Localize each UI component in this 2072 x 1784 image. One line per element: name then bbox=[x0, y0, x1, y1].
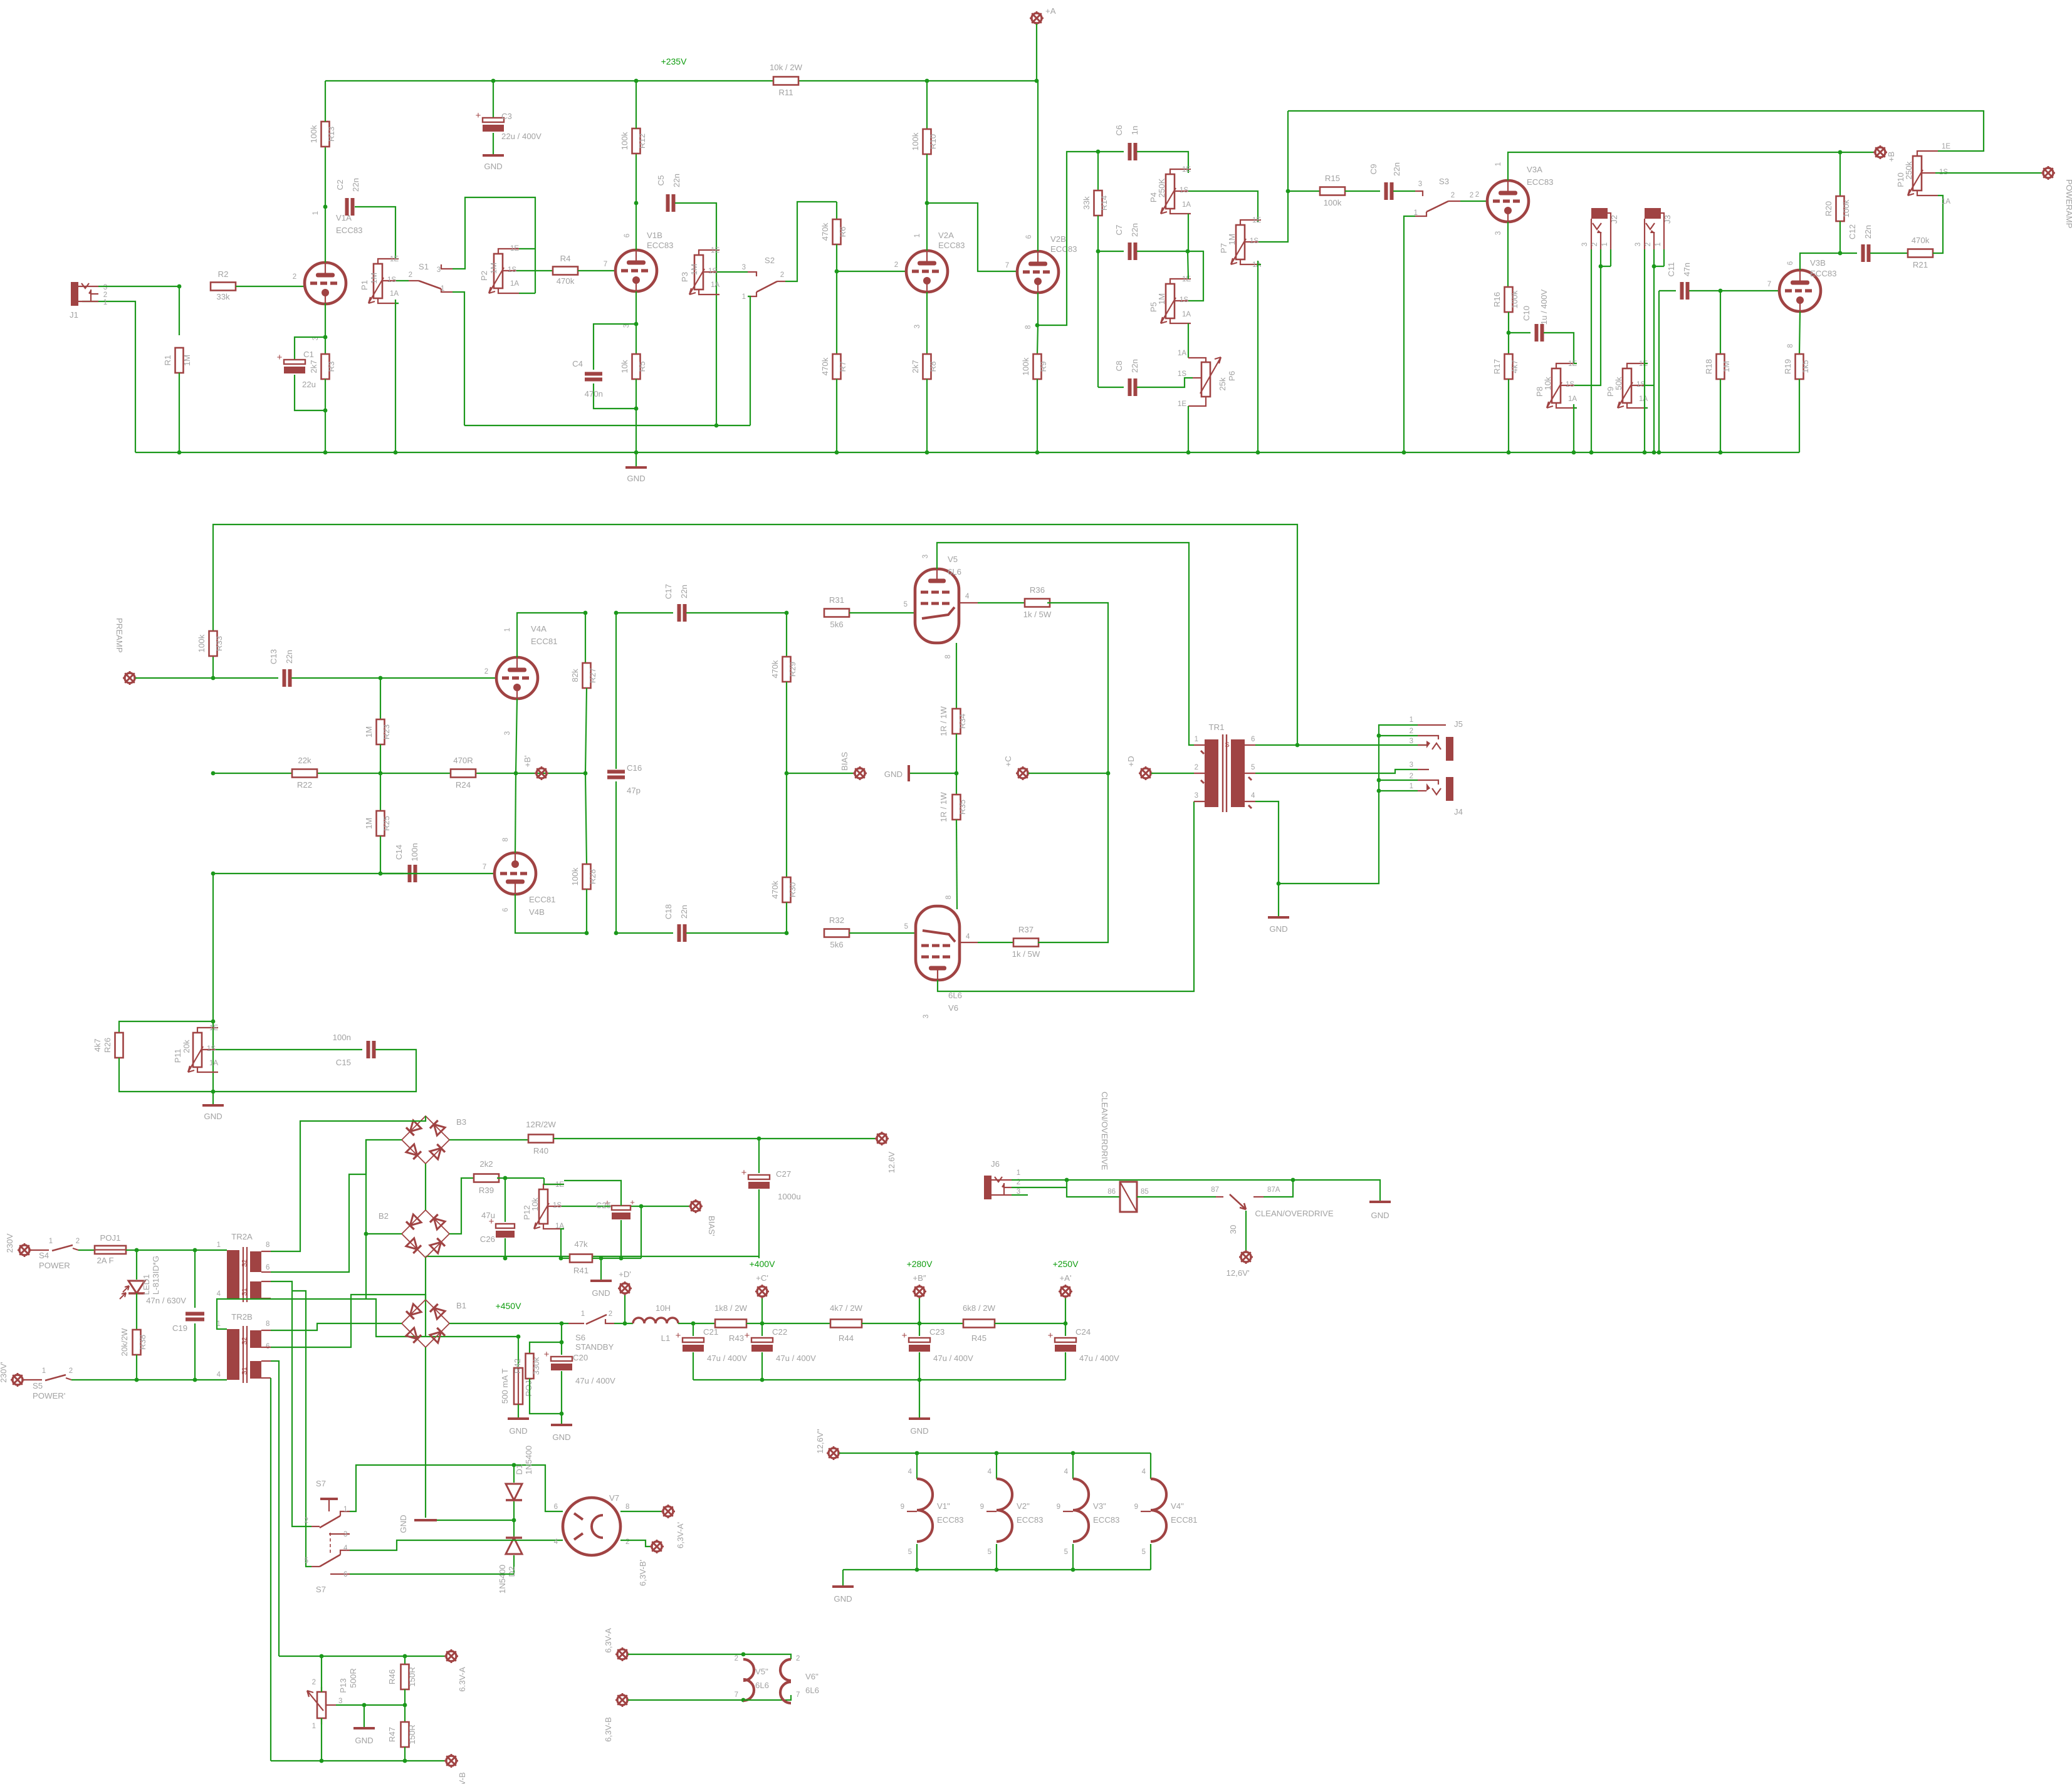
svg-text:2: 2 bbox=[1451, 192, 1455, 199]
svg-text:100n: 100n bbox=[410, 843, 419, 861]
svg-text:R16: R16 bbox=[1492, 292, 1502, 307]
svg-text:22n: 22n bbox=[1130, 359, 1139, 373]
svg-text:+: + bbox=[630, 1197, 635, 1207]
resistor R2 bbox=[211, 283, 236, 291]
wire V6 anode to TR1 pin3 bbox=[938, 801, 1194, 991]
svg-text:GND: GND bbox=[355, 1736, 373, 1745]
wire V4A anode line bbox=[517, 613, 585, 657]
svg-text:GND: GND bbox=[1371, 1211, 1389, 1220]
wire PREAMP to C13 bbox=[135, 677, 213, 679]
capacitor C6 bbox=[1098, 151, 1124, 152]
wire S7 pin1 to D1 line bbox=[350, 1465, 514, 1511]
svg-text:9: 9 bbox=[1057, 1503, 1060, 1511]
svg-text:R26: R26 bbox=[103, 1038, 112, 1053]
heater V1" ECC83 bbox=[916, 1453, 918, 1479]
jack J1 bbox=[71, 282, 78, 306]
capacitor C4 bbox=[594, 324, 636, 370]
wire V5 screen to R36 bbox=[959, 602, 978, 603]
svg-text:5: 5 bbox=[904, 601, 908, 608]
tube V5 6L6 bbox=[915, 569, 959, 643]
svg-text:1: 1 bbox=[914, 234, 921, 237]
resistor R28 bbox=[585, 773, 587, 864]
resistor R39 bbox=[474, 1174, 499, 1182]
ground GND power tubes bbox=[910, 773, 956, 774]
svg-text:2: 2 bbox=[76, 1238, 80, 1245]
resistor R31 bbox=[824, 609, 849, 617]
svg-text:1A: 1A bbox=[1182, 311, 1191, 318]
svg-text:C6: C6 bbox=[1114, 125, 1124, 136]
svg-text:1A: 1A bbox=[510, 280, 519, 288]
wire J6 pin1 ground line bbox=[1012, 1179, 1067, 1181]
svg-text:R3: R3 bbox=[327, 362, 336, 372]
svg-text:5: 5 bbox=[1251, 764, 1255, 771]
wire S2 pin1 down bbox=[748, 296, 750, 425]
wire S7 pin4 to V7 pin4 bbox=[350, 1540, 563, 1550]
svg-text:C16: C16 bbox=[627, 763, 642, 773]
flag 12.6V bbox=[877, 1134, 887, 1144]
resistor R25 bbox=[380, 773, 381, 811]
svg-text:6L6: 6L6 bbox=[948, 567, 961, 576]
wire S3 pin1 to bus bbox=[1404, 216, 1415, 452]
tube V3A ECC83 bbox=[1487, 180, 1529, 222]
svg-text:3: 3 bbox=[1410, 761, 1413, 769]
svg-text:100k: 100k bbox=[1841, 199, 1851, 217]
svg-text:1: 1 bbox=[217, 1241, 221, 1249]
relay coil CLEAN/OVERDRIVE bbox=[1067, 1187, 1120, 1197]
svg-text:V3B: V3B bbox=[1810, 258, 1826, 268]
svg-text:+: + bbox=[476, 110, 481, 121]
capacitor C5 bbox=[666, 194, 670, 212]
resistor R36 bbox=[1025, 599, 1050, 607]
svg-text:1E: 1E bbox=[1942, 143, 1950, 150]
svg-text:8: 8 bbox=[266, 1320, 269, 1328]
svg-text:GND: GND bbox=[1269, 924, 1287, 934]
svg-text:3: 3 bbox=[742, 264, 746, 271]
wire P3 wiper to S2 bbox=[717, 271, 748, 273]
resistor R27 bbox=[583, 771, 588, 776]
resistor R29 bbox=[786, 613, 787, 657]
svg-text:1000u: 1000u bbox=[778, 1192, 801, 1201]
wire +235V rail bbox=[325, 80, 1037, 81]
wire D1 line to V7 pin6 bbox=[514, 1465, 563, 1511]
potentiometer P5 bbox=[1166, 284, 1175, 318]
wire B2 left leg bbox=[366, 1140, 402, 1234]
flag 230V-prime bbox=[13, 1375, 23, 1385]
svg-text:1: 1 bbox=[312, 211, 320, 215]
svg-text:470k: 470k bbox=[770, 880, 780, 899]
svg-text:47u / 400V: 47u / 400V bbox=[933, 1354, 973, 1363]
svg-text:2: 2 bbox=[484, 668, 488, 676]
resistor R23 bbox=[380, 678, 381, 719]
wire V2B cathode to tone stack bbox=[1037, 152, 1098, 325]
svg-text:3: 3 bbox=[1195, 792, 1198, 800]
svg-text:25k: 25k bbox=[1218, 377, 1227, 391]
potentiometer P13 humdinger bbox=[317, 1692, 326, 1718]
resistor R5 bbox=[634, 322, 639, 326]
flag 12.6V-prime bbox=[1241, 1252, 1251, 1262]
svg-text:V5": V5" bbox=[755, 1667, 768, 1676]
svg-text:470k: 470k bbox=[1912, 236, 1930, 245]
supply +B flag bbox=[1838, 150, 1843, 155]
svg-text:C18: C18 bbox=[664, 904, 673, 919]
resistor R10 bbox=[925, 79, 929, 83]
svg-text:S7: S7 bbox=[316, 1585, 326, 1594]
resistor R26 bbox=[119, 1021, 213, 1033]
wire S1 pin3 to P2 top bbox=[453, 197, 535, 293]
resistor R6 bbox=[836, 202, 837, 219]
wire TR2B pin6 to B1 top bbox=[271, 1295, 426, 1347]
wire relay common to 12.6V-prime bbox=[1245, 1211, 1247, 1251]
svg-text:ECC83: ECC83 bbox=[937, 1515, 964, 1525]
bridge B2 bbox=[402, 1210, 449, 1258]
tube V1B ECC83 bbox=[615, 250, 657, 291]
wire P4 bottom to C7 node bbox=[1188, 214, 1189, 251]
ground GND mid-left bbox=[202, 1104, 224, 1107]
resistor R21 bbox=[1908, 249, 1933, 258]
svg-text:33k: 33k bbox=[216, 292, 230, 301]
svg-text:3: 3 bbox=[923, 1015, 930, 1018]
wire NFB line bbox=[213, 524, 1297, 745]
resistor R12 bbox=[636, 154, 637, 203]
wire R2 to V1A grid bbox=[236, 286, 305, 287]
svg-text:R25: R25 bbox=[382, 816, 391, 831]
svg-text:ECC81: ECC81 bbox=[1171, 1515, 1198, 1525]
svg-text:3: 3 bbox=[922, 555, 929, 558]
svg-text:1S: 1S bbox=[1178, 370, 1186, 378]
bridge B1 bbox=[402, 1300, 449, 1347]
switch S4 bbox=[30, 1249, 49, 1251]
svg-text:R45: R45 bbox=[971, 1333, 986, 1343]
svg-text:470k: 470k bbox=[820, 222, 830, 241]
svg-text:6: 6 bbox=[266, 1264, 269, 1271]
svg-text:150R: 150R bbox=[407, 1667, 417, 1687]
capacitor C12 bbox=[1840, 253, 1857, 254]
wire V6 screen to R37 bbox=[960, 942, 978, 943]
svg-text:GND: GND bbox=[399, 1515, 408, 1533]
svg-text:3: 3 bbox=[103, 284, 107, 291]
wire heater 6.3V-B rail bbox=[271, 1760, 446, 1761]
svg-text:6: 6 bbox=[1251, 736, 1255, 743]
svg-text:V6: V6 bbox=[948, 1003, 958, 1013]
svg-text:V2B: V2B bbox=[1050, 234, 1066, 244]
wire bus left riser from J1 bbox=[82, 301, 135, 452]
capacitor C8 bbox=[1128, 378, 1132, 396]
svg-text:S2: S2 bbox=[241, 1259, 248, 1267]
wire J5 J4 ground column bbox=[1279, 725, 1418, 884]
potentiometer P11 bbox=[193, 1033, 202, 1067]
svg-text:J2: J2 bbox=[1609, 215, 1619, 224]
svg-text:7: 7 bbox=[483, 863, 486, 871]
svg-text:2: 2 bbox=[780, 271, 784, 279]
svg-text:C9: C9 bbox=[1369, 164, 1378, 175]
svg-text:2: 2 bbox=[1475, 191, 1479, 199]
wire B2 right to R39 bbox=[449, 1178, 476, 1234]
svg-text:CLEAN/OVERDRIVE: CLEAN/OVERDRIVE bbox=[1255, 1209, 1334, 1218]
svg-text:+B: +B bbox=[1886, 152, 1896, 162]
svg-text:POJ1: POJ1 bbox=[100, 1233, 121, 1243]
svg-text:2: 2 bbox=[409, 271, 412, 279]
svg-text:C5: C5 bbox=[656, 175, 666, 186]
svg-text:1A: 1A bbox=[1639, 395, 1648, 403]
svg-text:P6: P6 bbox=[1227, 371, 1237, 381]
wire V2B anode to +A rail bbox=[1037, 81, 1039, 251]
svg-text:2k2: 2k2 bbox=[479, 1159, 493, 1169]
svg-text:22n: 22n bbox=[1863, 225, 1873, 239]
svg-text:12,6V'': 12,6V'' bbox=[815, 1429, 825, 1454]
svg-text:1: 1 bbox=[1655, 243, 1662, 246]
inductor L1 bbox=[633, 1318, 678, 1323]
svg-text:GND: GND bbox=[834, 1594, 852, 1604]
svg-text:ECC81: ECC81 bbox=[529, 895, 556, 904]
svg-text:ECC83: ECC83 bbox=[336, 226, 363, 235]
svg-text:C26: C26 bbox=[480, 1234, 495, 1244]
svg-text:20k: 20k bbox=[182, 1040, 191, 1053]
ground GND heater chain bbox=[842, 1570, 844, 1585]
svg-text:ECC81: ECC81 bbox=[531, 637, 558, 646]
wire TR2B S1 pins down bbox=[271, 1361, 279, 1656]
flag +C bbox=[1018, 768, 1028, 778]
svg-text:2: 2 bbox=[1410, 728, 1413, 735]
resistor R8 bbox=[926, 292, 928, 354]
wire B1 bottom to ground bbox=[425, 1347, 426, 1518]
svg-text:P13: P13 bbox=[338, 1678, 348, 1693]
wire P9 wiper bbox=[1645, 385, 1654, 386]
resistor R24 bbox=[451, 769, 476, 778]
svg-text:GND: GND bbox=[884, 769, 903, 779]
svg-text:R29: R29 bbox=[788, 662, 797, 677]
svg-text:1k / 5W: 1k / 5W bbox=[1023, 610, 1052, 619]
svg-text:R13: R13 bbox=[327, 127, 336, 142]
svg-text:R9: R9 bbox=[1039, 362, 1048, 372]
wire C2 to P1 top bbox=[355, 207, 395, 259]
svg-text:V4A: V4A bbox=[531, 624, 547, 634]
svg-text:C14: C14 bbox=[394, 845, 404, 860]
capacitor C10 bbox=[1509, 332, 1530, 333]
svg-text:4: 4 bbox=[966, 933, 970, 941]
svg-text:R6: R6 bbox=[838, 227, 847, 237]
svg-text:V1B: V1B bbox=[647, 231, 662, 240]
svg-text:4: 4 bbox=[988, 1468, 992, 1476]
svg-text:5: 5 bbox=[305, 1557, 308, 1565]
resistor R44 bbox=[830, 1320, 862, 1328]
wire C5 to P3 bottom bbox=[675, 203, 716, 425]
svg-text:R11: R11 bbox=[778, 88, 793, 97]
wire J2 pins bbox=[1599, 264, 1603, 269]
wire TR1 pin5 to J4 bbox=[1255, 769, 1418, 773]
svg-text:3: 3 bbox=[343, 1531, 347, 1538]
svg-text:6: 6 bbox=[1787, 261, 1794, 265]
ground GND output bbox=[1278, 884, 1279, 916]
svg-text:6: 6 bbox=[343, 1571, 347, 1578]
flag 12.6V-doubleprime bbox=[829, 1448, 839, 1458]
jack J3 bbox=[1645, 208, 1661, 219]
svg-text:5: 5 bbox=[904, 923, 908, 931]
svg-text:4: 4 bbox=[217, 1371, 221, 1379]
wire R31 to V5 grid bbox=[849, 612, 916, 613]
svg-text:6,3V-B': 6,3V-B' bbox=[638, 1560, 647, 1586]
capacitor C17 bbox=[616, 612, 673, 613]
svg-text:2: 2 bbox=[1195, 764, 1198, 771]
capacitor C23 bbox=[919, 1323, 920, 1336]
svg-text:V2": V2" bbox=[1017, 1501, 1030, 1511]
capacitor C25 bbox=[620, 1220, 622, 1258]
wire P7 wiper up to send line bbox=[1258, 111, 1288, 242]
resistor R41 bbox=[561, 1258, 570, 1259]
bridge B3 bbox=[402, 1116, 449, 1164]
svg-text:1M: 1M bbox=[369, 273, 379, 284]
svg-text:C1: C1 bbox=[303, 350, 314, 359]
svg-text:6: 6 bbox=[554, 1503, 558, 1511]
svg-text:R8: R8 bbox=[928, 362, 938, 372]
svg-text:1S: 1S bbox=[1566, 381, 1574, 389]
svg-text:+: + bbox=[277, 352, 283, 363]
svg-text:2k7: 2k7 bbox=[309, 360, 318, 373]
heater V3" ECC83 bbox=[1072, 1453, 1074, 1479]
svg-text:6,3V-A: 6,3V-A bbox=[604, 1628, 613, 1653]
wire S2 pin2 to R6 bbox=[785, 202, 837, 281]
svg-text:ECC83: ECC83 bbox=[1810, 269, 1837, 278]
svg-text:3: 3 bbox=[1495, 231, 1502, 235]
svg-text:100k: 100k bbox=[1324, 198, 1342, 207]
svg-text:4: 4 bbox=[554, 1538, 558, 1546]
svg-text:1S: 1S bbox=[1180, 296, 1188, 304]
svg-text:B1: B1 bbox=[456, 1301, 466, 1310]
svg-text:22u: 22u bbox=[302, 380, 316, 389]
svg-text:470k: 470k bbox=[770, 660, 780, 678]
svg-text:47u: 47u bbox=[481, 1211, 495, 1220]
svg-text:2: 2 bbox=[69, 1367, 73, 1375]
svg-text:6: 6 bbox=[1025, 235, 1033, 239]
svg-text:S7: S7 bbox=[316, 1479, 326, 1488]
fuse POJ2 bbox=[518, 1337, 519, 1368]
svg-text:R2: R2 bbox=[218, 269, 229, 279]
svg-text:1S: 1S bbox=[508, 266, 516, 274]
ground GND C20 bbox=[561, 1414, 562, 1424]
switch S5 bbox=[23, 1379, 42, 1380]
svg-text:D1: D1 bbox=[515, 1464, 524, 1475]
svg-text:C11: C11 bbox=[1666, 262, 1676, 276]
svg-text:4: 4 bbox=[1142, 1468, 1146, 1476]
wire C27 return to B3 bbox=[426, 1256, 759, 1257]
svg-text:22n: 22n bbox=[1130, 223, 1139, 237]
wire relay coil to contact bbox=[1137, 1196, 1216, 1197]
diode D2 bbox=[513, 1520, 515, 1536]
wire P9 ends to J3 column bbox=[1645, 363, 1648, 364]
potentiometer P7 bbox=[1236, 225, 1245, 259]
svg-text:1: 1 bbox=[1195, 736, 1198, 743]
wire V1B anode node bbox=[636, 203, 637, 250]
svg-text:12R/2W: 12R/2W bbox=[526, 1120, 556, 1129]
svg-text:S2: S2 bbox=[765, 256, 775, 265]
svg-text:R20: R20 bbox=[1824, 201, 1833, 216]
svg-text:1M: 1M bbox=[1157, 293, 1166, 305]
svg-text:7: 7 bbox=[1767, 281, 1771, 288]
wire P1 bottom to bus bbox=[395, 303, 399, 304]
wire J6 pin2 to relay coil bbox=[1012, 1180, 1067, 1187]
svg-text:V1A: V1A bbox=[336, 213, 352, 222]
ground GND filter bank bbox=[919, 1380, 920, 1417]
resistor R38 bbox=[136, 1293, 137, 1330]
wire R43 to R44 bbox=[746, 1323, 830, 1324]
jack J4 bbox=[1446, 777, 1453, 801]
wire heater top rail bbox=[839, 1453, 1151, 1454]
svg-text:1: 1 bbox=[504, 628, 511, 632]
svg-text:R10: R10 bbox=[928, 134, 938, 149]
svg-text:47p: 47p bbox=[627, 786, 641, 795]
svg-text:+A': +A' bbox=[1059, 1273, 1071, 1283]
svg-text:1R / 1W: 1R / 1W bbox=[939, 706, 948, 736]
svg-text:+235V: +235V bbox=[661, 56, 688, 66]
svg-text:ECC83: ECC83 bbox=[938, 241, 965, 250]
svg-text:V1": V1" bbox=[937, 1501, 950, 1511]
svg-text:+: + bbox=[745, 1330, 750, 1341]
capacitor C14 bbox=[213, 873, 404, 874]
resistor R34 bbox=[953, 709, 961, 734]
wire V5 anode to TR1 pin1 bbox=[937, 543, 1194, 745]
wire P11 network left column bbox=[212, 874, 214, 1021]
heater V5" 6L6 bbox=[628, 1654, 743, 1655]
svg-text:6L6: 6L6 bbox=[755, 1681, 769, 1690]
svg-text:1: 1 bbox=[1601, 243, 1609, 246]
switch S6 standby bbox=[568, 1323, 584, 1324]
svg-text:5: 5 bbox=[988, 1548, 992, 1556]
wire V4A cathode bbox=[514, 771, 518, 776]
svg-text:R47: R47 bbox=[387, 1727, 397, 1742]
tube V7 rectifier bbox=[563, 1498, 620, 1555]
svg-text:100k: 100k bbox=[911, 132, 920, 150]
wire heater 6.3V-A rail bbox=[279, 1656, 446, 1657]
svg-text:R15: R15 bbox=[1325, 174, 1340, 183]
svg-text:C10: C10 bbox=[1522, 306, 1531, 321]
svg-text:3: 3 bbox=[338, 1698, 342, 1705]
svg-text:C8: C8 bbox=[1114, 361, 1124, 372]
svg-text:50k: 50k bbox=[1614, 377, 1623, 390]
svg-text:47n: 47n bbox=[1682, 263, 1692, 276]
resistor R19 bbox=[1799, 311, 1800, 354]
wire TR2A pin4 to POJ2 bbox=[227, 1299, 518, 1337]
svg-text:1R / 1W: 1R / 1W bbox=[939, 792, 948, 822]
wire P6 bottom to bus bbox=[1188, 406, 1189, 452]
resistor R43 bbox=[715, 1320, 746, 1328]
svg-text:1A: 1A bbox=[1182, 201, 1191, 209]
svg-text:7: 7 bbox=[1005, 262, 1009, 269]
heater V2" ECC83 bbox=[996, 1453, 997, 1479]
svg-text:C25: C25 bbox=[596, 1201, 611, 1210]
svg-text:J3: J3 bbox=[1663, 215, 1672, 224]
svg-text:4: 4 bbox=[1064, 1468, 1069, 1476]
svg-text:1u / 400V: 1u / 400V bbox=[1539, 290, 1549, 325]
svg-text:GND: GND bbox=[484, 162, 502, 171]
resistor R37 bbox=[1013, 939, 1039, 947]
ground GND P13 bbox=[364, 1705, 365, 1727]
svg-text:1M: 1M bbox=[182, 355, 192, 366]
svg-text:22k: 22k bbox=[298, 756, 311, 765]
svg-text:22n: 22n bbox=[679, 905, 689, 919]
svg-text:5k6: 5k6 bbox=[830, 620, 843, 629]
wire P8 top from C10 bbox=[1574, 363, 1577, 364]
wire +450V line bbox=[449, 1323, 568, 1324]
potentiometer P6 (reversed) bbox=[1201, 362, 1210, 397]
resistor R40 bbox=[528, 1135, 553, 1143]
svg-text:S4: S4 bbox=[39, 1251, 49, 1260]
svg-text:C20: C20 bbox=[573, 1353, 588, 1362]
svg-text:47k: 47k bbox=[574, 1239, 588, 1249]
svg-text:+: + bbox=[741, 1167, 747, 1178]
svg-text:6.3V-B: 6.3V-B bbox=[458, 1772, 467, 1784]
wire J6 pin3 stub bbox=[1012, 1194, 1028, 1196]
resistor R30 bbox=[786, 773, 787, 877]
svg-text:1M: 1M bbox=[1722, 361, 1731, 372]
